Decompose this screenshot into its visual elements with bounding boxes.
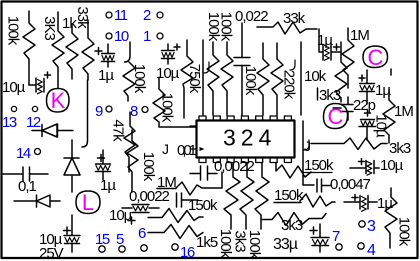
blob C2 outline bbox=[323, 104, 347, 129]
svg-text:10: 10 bbox=[114, 28, 129, 45]
svg-text:5: 5 bbox=[116, 231, 124, 248]
capacitor 0,01 bbox=[190, 166, 217, 180]
resistor 3k3 (under IC col2) bbox=[240, 163, 254, 229]
svg-text:C: C bbox=[328, 104, 344, 129]
svg-text:13: 13 bbox=[2, 114, 17, 131]
svg-text:10k: 10k bbox=[304, 68, 327, 85]
svg-text:1M: 1M bbox=[394, 103, 413, 120]
resistor 100k (i, x133) bbox=[127, 130, 138, 192]
svg-text:47k: 47k bbox=[110, 119, 127, 142]
resistor 100k (top-left col1) bbox=[23, 11, 35, 85]
svg-text:150k: 150k bbox=[304, 157, 334, 174]
resistor 1k (top-left col3) bbox=[66, 24, 78, 79]
resistor 10k bbox=[335, 42, 347, 102]
svg-text:8: 8 bbox=[130, 103, 138, 120]
svg-text:10µ: 10µ bbox=[156, 65, 180, 82]
svg-text:1µ: 1µ bbox=[98, 67, 114, 84]
svg-text:0,1: 0,1 bbox=[18, 178, 37, 195]
svg-text:1M: 1M bbox=[157, 174, 176, 191]
svg-text:16: 16 bbox=[180, 244, 195, 261]
svg-text:1k5: 1k5 bbox=[196, 234, 218, 251]
svg-text:0,01: 0,01 bbox=[177, 142, 197, 159]
capacitor 1u (h, bottom-right) bbox=[344, 196, 377, 210]
svg-text:7: 7 bbox=[332, 228, 340, 245]
svg-text:10µ: 10µ bbox=[109, 207, 133, 224]
svg-text:0,0047: 0,0047 bbox=[330, 176, 371, 193]
svg-text:1µ: 1µ bbox=[100, 177, 116, 194]
svg-text:33k: 33k bbox=[74, 6, 91, 29]
diode D3 (horizontal, left) bbox=[14, 195, 60, 207]
capacitor 0,0047 bbox=[317, 179, 331, 192]
svg-text:12: 12 bbox=[26, 114, 41, 131]
blob K outline bbox=[47, 89, 70, 113]
svg-text:J: J bbox=[304, 138, 310, 154]
svg-text:750k: 750k bbox=[186, 64, 203, 94]
capacitor 0,1 bbox=[3, 167, 48, 181]
resistor 1M (b) bbox=[383, 90, 395, 143]
svg-text:10µ: 10µ bbox=[2, 79, 26, 96]
resistor 100k (g, bottom-right) bbox=[385, 188, 397, 248]
svg-text:1µ: 1µ bbox=[317, 32, 333, 49]
capacitor 22p bbox=[333, 97, 353, 120]
svg-text:L: L bbox=[82, 190, 94, 215]
capacitor 10u (a, left) bbox=[29, 78, 44, 92]
capacitor 1u (below 33k, + plate) bbox=[102, 44, 115, 67]
capacitor 10u (top mid, b) bbox=[162, 44, 175, 64]
capacitor 0,022 bbox=[234, 23, 250, 115]
resistor 1M (a) bbox=[342, 28, 354, 88]
svg-text:1M: 1M bbox=[350, 27, 369, 44]
blob L outline bbox=[76, 191, 100, 214]
svg-text:150k: 150k bbox=[188, 197, 218, 214]
resistor 750k bbox=[181, 40, 193, 118]
svg-text:10µ: 10µ bbox=[373, 114, 390, 138]
capacitor 1u (f) bbox=[96, 150, 111, 180]
svg-text:15: 15 bbox=[95, 231, 110, 248]
capacitor 33u electrolytic bbox=[311, 224, 329, 238]
resistor 150k (d, bottom mid) bbox=[148, 209, 203, 223]
capacitor 10u 25V (bottom-left) bbox=[64, 215, 80, 236]
svg-text:11: 11 bbox=[114, 7, 128, 24]
resistor 100k (f) bbox=[257, 43, 269, 115]
svg-text:100k: 100k bbox=[218, 12, 235, 42]
wire long at x301 bbox=[300, 42, 302, 115]
resistor 100k (e) bbox=[221, 42, 233, 115]
resistor 3k3 (horizontal b) bbox=[261, 213, 326, 226]
svg-text:100k: 100k bbox=[396, 217, 413, 247]
svg-text:6: 6 bbox=[138, 225, 146, 242]
diode D2 (vertical, up) bbox=[64, 140, 80, 192]
capacitor 10u (right, y160) bbox=[350, 161, 379, 174]
wire to IC pin area bbox=[160, 126, 196, 128]
resistor 100k (under IC col1) bbox=[224, 163, 240, 229]
wire long at x203 bbox=[202, 40, 204, 115]
capacitor 10u (g, mid-bottom) bbox=[132, 205, 149, 213]
svg-text:100k: 100k bbox=[140, 152, 157, 182]
resistor 100k (d) bbox=[207, 42, 219, 115]
svg-text:324: 324 bbox=[223, 125, 276, 151]
svg-text:100k: 100k bbox=[217, 229, 234, 259]
svg-text:100k: 100k bbox=[5, 16, 22, 46]
wire J at IC right bbox=[303, 121, 314, 185]
resistor 150k (1, under IC right) bbox=[276, 163, 311, 178]
resistor 100k (under IC col3) bbox=[255, 163, 269, 229]
underline 150k#1 bbox=[304, 172, 332, 174]
IC top pins bbox=[199, 116, 291, 121]
svg-text:100k: 100k bbox=[242, 66, 259, 96]
svg-text:0,0022: 0,0022 bbox=[214, 158, 255, 175]
svg-text:2: 2 bbox=[143, 7, 151, 24]
resistor 1k5 bbox=[148, 225, 203, 239]
resistor 100k (c, x130) bbox=[123, 62, 135, 101]
svg-text:3k3: 3k3 bbox=[389, 140, 411, 157]
svg-text:1µ: 1µ bbox=[375, 82, 391, 99]
capacitor 0,0022 (b) bbox=[177, 193, 199, 207]
IC 324 body bbox=[197, 121, 295, 158]
svg-text:9: 9 bbox=[95, 103, 103, 120]
svg-text:100k: 100k bbox=[131, 64, 148, 94]
svg-text:3K3: 3K3 bbox=[41, 16, 58, 40]
blob C1 outline bbox=[363, 46, 388, 68]
svg-text:K: K bbox=[51, 88, 66, 113]
svg-text:100k: 100k bbox=[246, 230, 263, 260]
svg-text:C: C bbox=[368, 45, 384, 70]
svg-text:1µ: 1µ bbox=[377, 195, 393, 212]
resistor 220k bbox=[271, 43, 283, 115]
resistor 1M (horizontal) underline bbox=[157, 172, 222, 195]
capacitor 1u (top right, c) bbox=[319, 43, 341, 60]
svg-text:10µ: 10µ bbox=[380, 157, 404, 174]
resistor 3k3 (horizontal a) bbox=[311, 138, 387, 150]
resistor 47k bbox=[124, 112, 135, 172]
svg-text:14: 14 bbox=[16, 145, 31, 162]
svg-text:25V: 25V bbox=[39, 245, 64, 261]
svg-text:150k: 150k bbox=[274, 187, 304, 204]
svg-text:220k: 220k bbox=[281, 70, 298, 100]
svg-text:33k: 33k bbox=[283, 10, 306, 27]
wire R4 down with J hook bbox=[82, 80, 88, 147]
wire J hook (top of 100k c) bbox=[125, 42, 131, 62]
svg-text:1: 1 bbox=[143, 28, 151, 45]
IC pin1 marker bbox=[200, 147, 205, 151]
resistor 33k (top-left col4) bbox=[82, 20, 94, 80]
diode D1 (horizontal, right) bbox=[32, 124, 73, 137]
svg-text:100k: 100k bbox=[159, 93, 176, 123]
wire small below C1 bbox=[390, 69, 392, 75]
wire J hook near x203 bbox=[204, 62, 209, 73]
svg-text:3k3: 3k3 bbox=[319, 87, 341, 104]
IC bottom pins bbox=[199, 158, 291, 163]
wire J hook (x295) bbox=[290, 60, 295, 70]
svg-text:3k3: 3k3 bbox=[232, 230, 249, 252]
svg-text:33µ: 33µ bbox=[273, 236, 298, 253]
resistor 3K3 (top-left col2) bbox=[52, 12, 64, 88]
svg-text:J: J bbox=[162, 141, 168, 157]
resistor 33k (horizontal) bbox=[257, 22, 319, 43]
IC wire left bbox=[190, 126, 197, 149]
svg-text:0,022: 0,022 bbox=[235, 8, 268, 25]
capacitor 10u (e) with rotated label bbox=[365, 110, 371, 116]
resistor 150k (2) bbox=[274, 194, 335, 207]
svg-text:22p: 22p bbox=[353, 97, 376, 114]
svg-text:3k3: 3k3 bbox=[281, 217, 303, 234]
resistor 100k (mid, x159) bbox=[153, 78, 165, 127]
wire 3k3 text lead bbox=[317, 88, 319, 100]
capacitor 1u (d, right) bbox=[360, 70, 375, 104]
